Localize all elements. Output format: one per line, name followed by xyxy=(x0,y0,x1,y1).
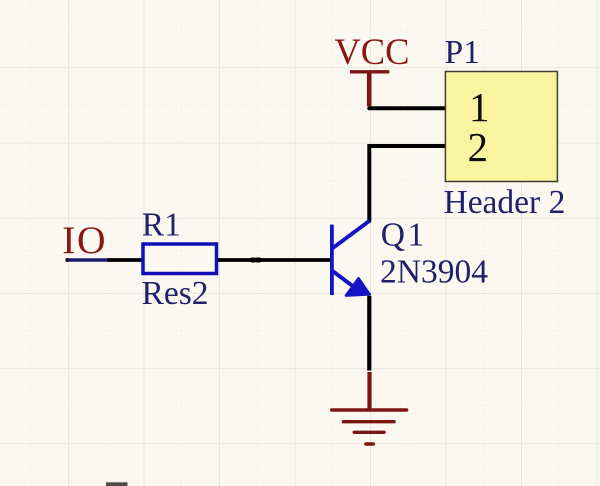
svg-text:Header 2: Header 2 xyxy=(444,184,566,221)
resistor left pin xyxy=(107,258,141,262)
svg-text:VCC: VCC xyxy=(334,31,409,72)
connector P1 body xyxy=(445,72,557,182)
svg-text:R1: R1 xyxy=(142,206,181,243)
emitter wire to ground xyxy=(367,296,371,371)
ground bar 2 xyxy=(343,420,394,423)
wire end dot xyxy=(65,258,69,262)
svg-text:Res2: Res2 xyxy=(142,275,209,312)
ground bar 4 xyxy=(366,442,373,445)
base bar xyxy=(330,225,334,295)
ground stem xyxy=(367,372,371,410)
IO wire (navy segment) xyxy=(68,258,108,261)
transistor Q1 xyxy=(332,221,370,295)
VCC power bar symbol xyxy=(350,72,389,107)
wire pin 2 to collector xyxy=(369,146,446,221)
ground bar 1 xyxy=(332,408,407,411)
svg-text:P1: P1 xyxy=(445,34,480,71)
ground bar 3 xyxy=(354,431,384,434)
resistor R1 body xyxy=(143,244,217,274)
svg-text:Q1: Q1 xyxy=(381,216,427,253)
wire VCC to pin 1 xyxy=(369,106,446,110)
emitter arrow xyxy=(346,278,370,295)
svg-text:IO: IO xyxy=(62,218,107,262)
svg-text:2: 2 xyxy=(468,124,489,170)
emitter stroke xyxy=(332,271,357,289)
cut-off object at bottom edge xyxy=(106,482,128,486)
svg-text:2N3904: 2N3904 xyxy=(380,254,488,291)
ground symbol xyxy=(332,372,407,444)
wire resistor to base xyxy=(218,258,332,262)
collector stroke xyxy=(332,221,369,249)
junction dots on wire xyxy=(252,258,259,263)
